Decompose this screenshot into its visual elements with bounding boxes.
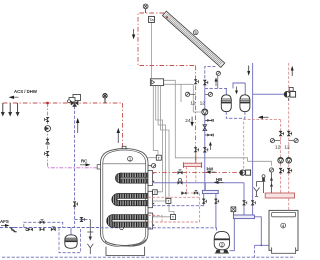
svg-text:RC: RC <box>81 159 88 164</box>
svg-text:AFS: AFS <box>0 219 9 224</box>
flow arrow up (cold to mixer) <box>76 118 79 133</box>
violet drop into bar <box>204 183 206 191</box>
pump unit 2 <box>214 231 229 253</box>
wire stub T3 to tank <box>139 200 166 202</box>
label AFS with arrow <box>0 219 10 227</box>
valve on cold main right <box>51 227 56 232</box>
solar pump <box>202 109 208 115</box>
heat exchanger coil 2 (middle) <box>112 193 148 205</box>
gauge on return bar <box>231 207 236 215</box>
drain cock 2 <box>205 134 214 137</box>
valve on RC line bottom <box>45 151 50 156</box>
flow arrow down to vessel <box>235 87 238 95</box>
valve on cold riser <box>73 201 78 206</box>
svg-text:4: 4 <box>282 224 285 229</box>
svg-text:12: 12 <box>275 144 281 150</box>
valve on coil2 line <box>181 191 186 194</box>
solar expansion vessel 2 <box>240 95 250 112</box>
svg-text:ACS / DHW: ACS / DHW <box>14 89 38 94</box>
valve blue riser lower <box>203 147 208 152</box>
up arrow top of red riser <box>291 66 294 76</box>
svg-text:1: 1 <box>129 157 132 162</box>
sensor box T2 <box>153 190 158 195</box>
pump on boiler flow to coil1 <box>240 170 251 175</box>
tap outlet 1 <box>1 103 5 117</box>
coil 3 flange <box>148 213 153 229</box>
svg-text:12: 12 <box>284 144 290 150</box>
zone valve 2 lower <box>287 168 292 173</box>
drain drop to sewer line <box>254 245 256 257</box>
svg-text:5: 5 <box>194 30 197 35</box>
sensor well coil 3 <box>133 215 137 219</box>
zone valve 2 <box>287 131 292 136</box>
drain line along bottom <box>2 256 295 258</box>
tap outlet 2 <box>8 103 12 117</box>
wire w2 controller to sensor T2 <box>156 86 163 192</box>
wire from sensor Ta to controller <box>151 23 153 80</box>
boiler return manifold bar <box>233 215 254 219</box>
pump unit outlet to boiler return bar <box>230 219 235 251</box>
zone valve 1 <box>279 131 284 136</box>
valve on blue supply <box>251 200 256 205</box>
check valve on cold main <box>40 228 45 232</box>
boiler safety thermometer <box>269 168 273 172</box>
solar controller <box>150 79 163 86</box>
thermometer blue riser <box>205 92 213 96</box>
solar flow line from collector (red dash-dot) <box>138 13 196 66</box>
sensor well coil 2 <box>136 199 140 203</box>
safety group boundary box (dashed) <box>59 228 81 253</box>
red drop from manifold left <box>185 167 187 193</box>
collector label 5 <box>193 30 198 35</box>
valve on RC line top <box>45 117 50 122</box>
long blue supply from consumers <box>252 63 254 215</box>
solar expansion vessel 1 <box>221 95 231 112</box>
blue line below station <box>204 88 206 190</box>
sensor box T1 <box>156 155 161 160</box>
flow arrow ACS <box>9 96 19 99</box>
valve on violet riser <box>242 200 247 205</box>
wire w3 controller to sensor T3 <box>158 86 165 199</box>
wire w4 controller to sensor T4 <box>161 86 175 215</box>
tank bottom inner curve <box>105 240 146 246</box>
tank left port stub <box>97 165 100 169</box>
valve on coil1 return <box>178 178 183 184</box>
safety valve discharge arrow <box>87 220 93 254</box>
coil 1 flange <box>148 171 153 186</box>
branch to expansion vessels <box>233 83 245 95</box>
red dashed segment to coil2 <box>148 193 200 222</box>
manifold to boiler (red dashed) <box>288 198 290 210</box>
heating zone red dashed frame <box>244 63 289 193</box>
cold inlet diffuser inside tank <box>101 227 120 229</box>
discharge funnel <box>254 188 260 197</box>
bypass rectangle (blue dashed) <box>24 222 63 227</box>
coil1 return (violet) to boiler <box>152 182 244 184</box>
valve on blue riser <box>203 80 208 85</box>
sensor box T3 <box>166 198 171 203</box>
wire controller to solar pump <box>164 84 202 112</box>
zone valve 1 lower <box>279 168 284 173</box>
tank dome seam line <box>103 163 146 165</box>
label RC with arrow <box>80 159 91 167</box>
sensor box Ta <box>149 16 155 22</box>
junction boiler return <box>260 244 262 246</box>
zone pump 1 <box>278 158 284 164</box>
svg-text:kW: kW <box>207 166 214 171</box>
check valve on RC line <box>46 139 50 144</box>
shutoff valve on cold main <box>26 228 33 232</box>
zone thermometer 1 <box>270 139 280 143</box>
riser to collector bottom with thermometer <box>216 71 220 88</box>
left arrow on zone top line <box>258 116 269 119</box>
flow arrow up (hot from tank) <box>117 128 120 143</box>
violet riser to return bar <box>243 183 245 215</box>
coil2 return blue dashed <box>153 205 204 207</box>
svg-text:24: 24 <box>185 118 191 124</box>
DHW expansion vessel <box>65 228 77 249</box>
valve red riser lower <box>194 147 199 152</box>
tank label 1 <box>128 156 133 161</box>
cold water main AFS (blue dashed) <box>0 227 102 229</box>
air vent and safety valve group <box>257 175 266 193</box>
wire controller to heating pumps (kW zone) <box>164 80 272 166</box>
junction on ACS line <box>46 102 48 104</box>
solar collector panel <box>163 11 225 67</box>
wire w1 controller to sensor T1 <box>153 86 158 156</box>
label HB with arrow <box>214 177 224 184</box>
solar riser red down to manifold <box>195 66 197 164</box>
boiler loading pump <box>253 88 296 101</box>
red dashed coil2 lower line <box>148 196 200 198</box>
tank thermometer right top <box>148 164 156 168</box>
sensor box T4 <box>171 215 176 220</box>
mixing valve with actuator <box>68 95 81 107</box>
pressure reducer on branch <box>80 217 85 222</box>
svg-text:12: 12 <box>190 100 196 106</box>
bar right stub down to vessel line <box>215 194 217 228</box>
red drop from manifold mid <box>195 167 197 182</box>
svg-text:HB: HB <box>216 177 222 182</box>
tap outlet 3 <box>16 103 20 117</box>
valve on coil1 flow <box>178 170 183 175</box>
cold feed riser (blue dashed) to mixing valve <box>74 106 76 202</box>
blue dashed header to vessels <box>205 87 227 89</box>
solar manifold bar <box>183 153 201 168</box>
valve on bar right stub <box>214 199 219 204</box>
flow arrow down on solar flow <box>132 29 135 39</box>
sensor on ACS line <box>103 94 107 104</box>
valve on bypass top <box>40 220 45 225</box>
boiler flow to tank coil1 (red dash-dot) <box>152 172 240 174</box>
check valve solar <box>203 125 207 131</box>
strainer filter on cold main <box>9 228 17 232</box>
heating flow manifold bar <box>265 193 294 198</box>
recirculation line RC (magenta) <box>48 103 100 168</box>
down arrow at top of blue supply <box>247 66 250 76</box>
flow arrow up into collector <box>215 78 218 87</box>
label 24 with down arrow <box>185 117 194 127</box>
zone pump 2 <box>286 158 292 164</box>
storage tank shell <box>101 149 149 247</box>
ambient sensor on collector line <box>143 4 148 13</box>
svg-text:2: 2 <box>221 243 224 248</box>
riser from tank top to mixing valve <box>122 103 124 149</box>
solar station: valve on red riser <box>194 79 199 84</box>
wire stub T1 to tank <box>140 157 156 159</box>
thermometer red riser <box>186 92 196 96</box>
flow arrow up beside blue riser <box>209 142 212 150</box>
vessels bottom connecting line <box>226 112 245 119</box>
return bar to boiler <box>254 217 269 246</box>
distribution bar under station <box>202 190 218 193</box>
collector inlet dot <box>166 16 168 18</box>
check valve column to flow bar <box>270 172 273 193</box>
tank bottom outlet to pump unit (blue dashed) <box>148 228 216 232</box>
boiler <box>269 210 298 253</box>
valve on coil2 line b <box>194 191 198 195</box>
label kW with arrow <box>206 166 216 173</box>
collector return (blue dashed) <box>205 67 216 89</box>
ACS red dash-dot line to taps <box>3 102 123 104</box>
heat exchanger coil 3 (bottom) <box>107 215 148 228</box>
tank base skirt <box>106 247 145 256</box>
tank top nozzle <box>122 146 126 148</box>
valve on coil2 return riser <box>202 199 207 204</box>
recirculation pump <box>45 126 51 132</box>
zone thermometer 2 <box>289 139 299 143</box>
coil 2 flange <box>148 191 153 207</box>
drain cock 1 <box>205 119 214 122</box>
heat exchanger coil 1 (top) <box>115 173 147 183</box>
wire stub T4 to tank <box>136 216 171 218</box>
